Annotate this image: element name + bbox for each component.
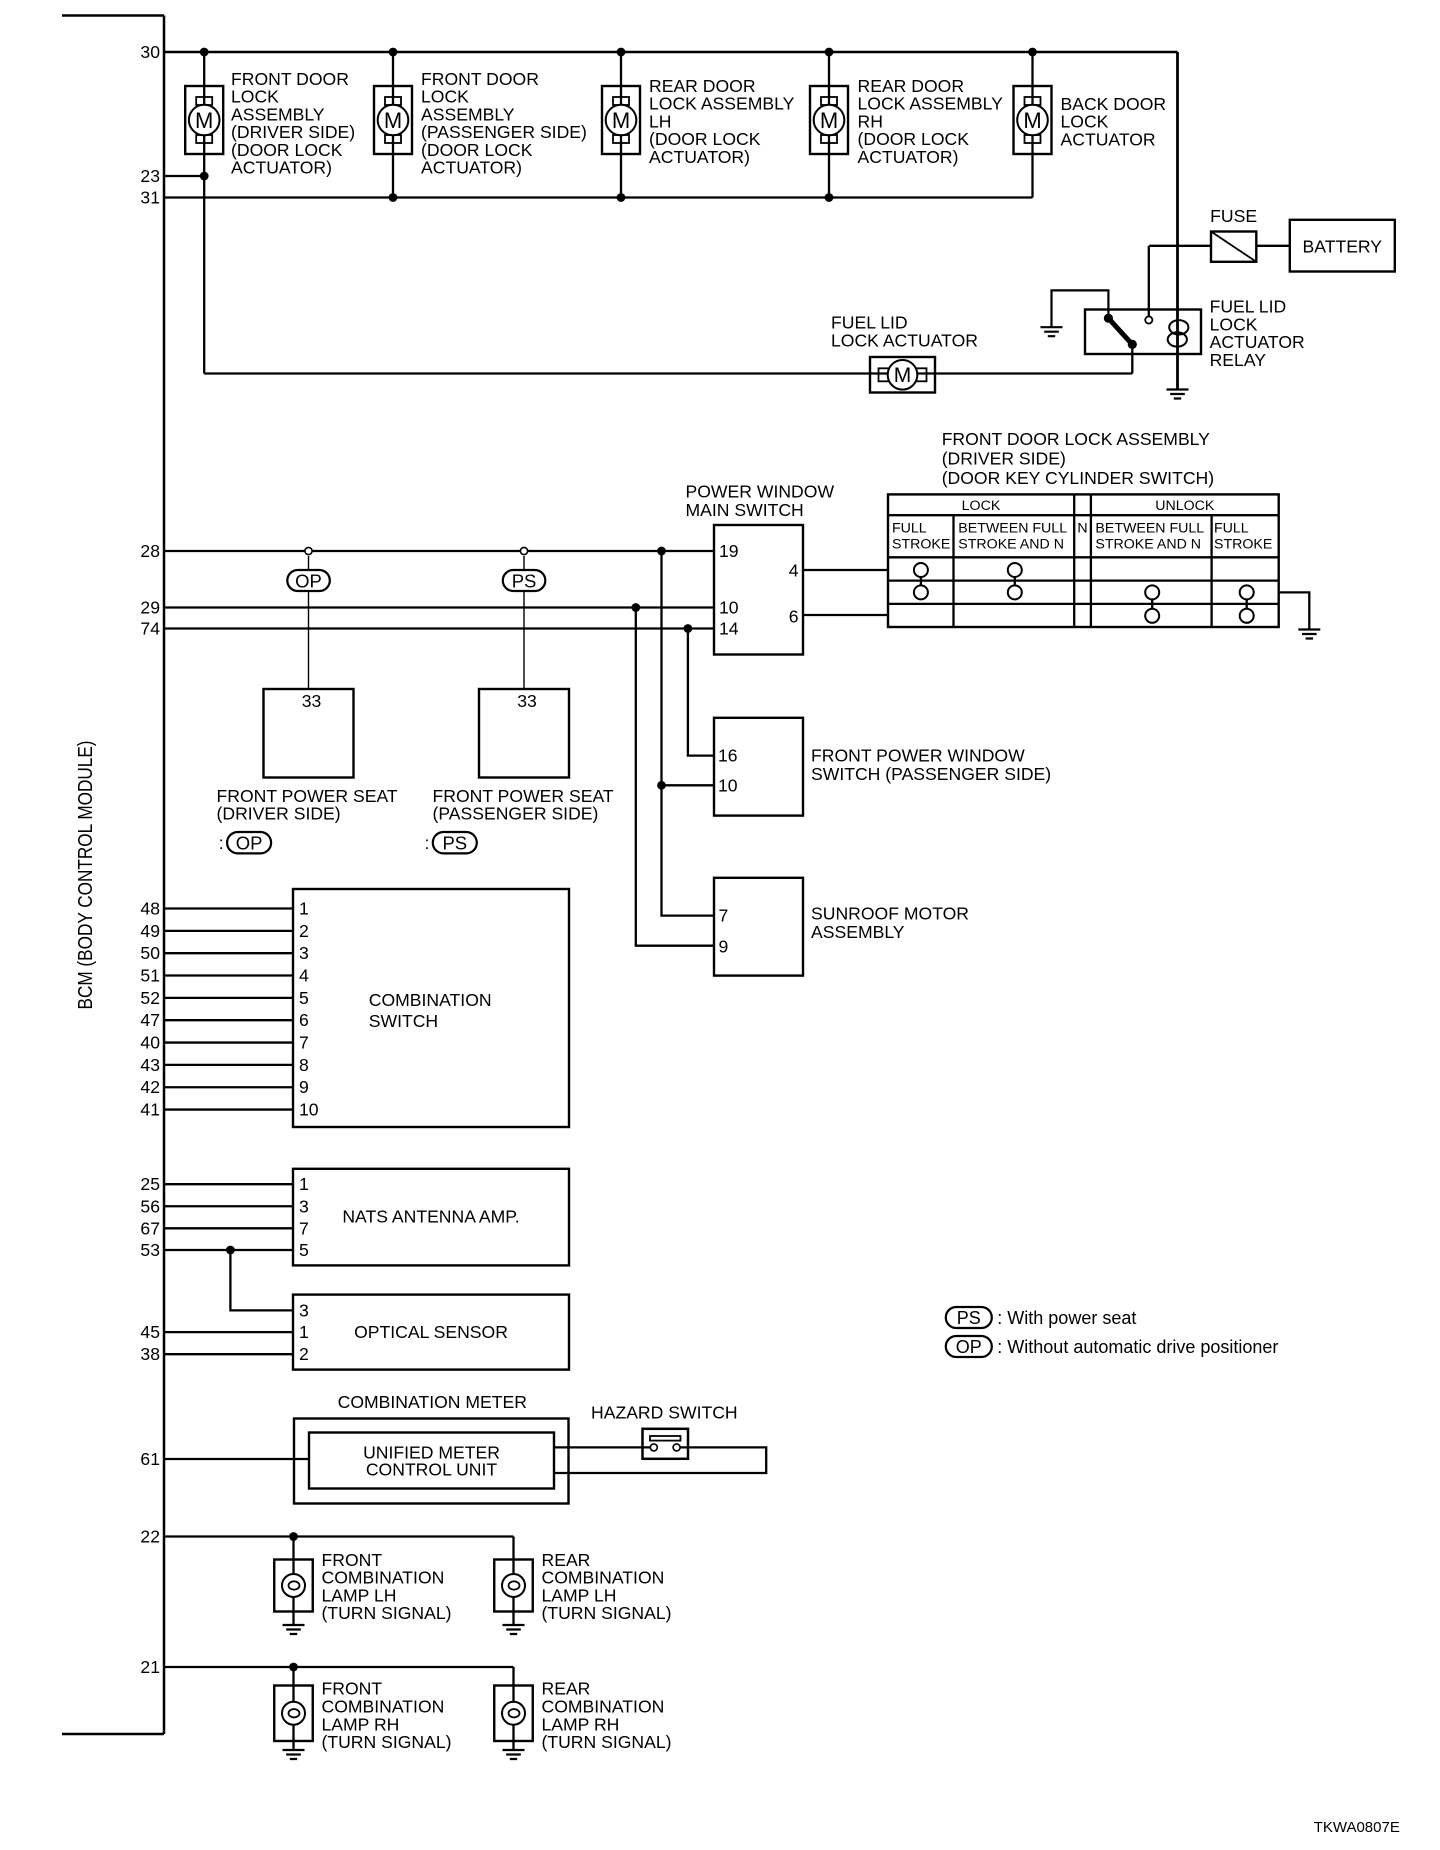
svg-text:COMBINATION: COMBINATION	[369, 990, 492, 1010]
svg-text:M: M	[195, 108, 213, 133]
svg-text:FUEL LID: FUEL LID	[831, 313, 908, 333]
svg-text:28: 28	[140, 541, 160, 561]
svg-text:16: 16	[718, 746, 738, 766]
svg-text:STROKE: STROKE	[1214, 537, 1272, 553]
svg-text:(TURN SIGNAL): (TURN SIGNAL)	[322, 1603, 452, 1623]
svg-text:3: 3	[299, 1300, 309, 1320]
svg-text:22: 22	[140, 1527, 160, 1547]
svg-text:67: 67	[140, 1218, 160, 1238]
svg-text:14: 14	[719, 619, 739, 639]
svg-text:PS: PS	[957, 1308, 981, 1328]
svg-text:FULL: FULL	[1214, 521, 1249, 537]
svg-text:38: 38	[140, 1344, 160, 1364]
svg-text:PS: PS	[442, 833, 467, 854]
svg-text:40: 40	[140, 1033, 160, 1053]
svg-text:6: 6	[789, 607, 799, 627]
svg-text:ACTUATOR): ACTUATOR)	[649, 147, 750, 167]
svg-text:FULL: FULL	[892, 521, 927, 537]
svg-text:3: 3	[299, 1196, 309, 1216]
svg-text::: :	[425, 833, 430, 853]
svg-text:7: 7	[299, 1033, 309, 1053]
svg-text:56: 56	[140, 1196, 160, 1216]
svg-text:9: 9	[299, 1077, 309, 1097]
svg-text:(PASSENGER SIDE): (PASSENGER SIDE)	[433, 804, 599, 824]
svg-text:1: 1	[299, 899, 309, 919]
svg-text:10: 10	[299, 1100, 319, 1120]
svg-text:1: 1	[299, 1174, 309, 1194]
svg-text:LOCK ACTUATOR: LOCK ACTUATOR	[831, 331, 978, 351]
svg-text:5: 5	[299, 1240, 309, 1260]
svg-text:8: 8	[299, 1055, 309, 1075]
svg-text:ACTUATOR): ACTUATOR)	[231, 158, 332, 178]
svg-text:: Without automatic drive posi: : Without automatic drive positioner	[997, 1337, 1278, 1357]
svg-text:50: 50	[140, 943, 160, 963]
svg-text:STROKE AND N: STROKE AND N	[958, 537, 1064, 553]
svg-text:52: 52	[140, 988, 160, 1008]
svg-text:STROKE: STROKE	[892, 537, 950, 553]
svg-text:SWITCH: SWITCH	[369, 1011, 438, 1031]
svg-text:FUSE: FUSE	[1210, 206, 1257, 226]
svg-text:CONTROL UNIT: CONTROL UNIT	[366, 1460, 498, 1480]
svg-text:7: 7	[719, 906, 729, 926]
svg-text:ACTUATOR: ACTUATOR	[1061, 129, 1156, 149]
svg-text:COMBINATION METER: COMBINATION METER	[338, 1392, 527, 1412]
svg-text:25: 25	[140, 1174, 160, 1194]
svg-text:OP: OP	[236, 833, 263, 854]
svg-text:M: M	[820, 108, 838, 133]
svg-text:NATS ANTENNA AMP.: NATS ANTENNA AMP.	[342, 1207, 519, 1227]
svg-text:ACTUATOR): ACTUATOR)	[421, 158, 522, 178]
svg-text:29: 29	[140, 598, 160, 618]
svg-text:4: 4	[789, 561, 799, 581]
svg-text:FRONT DOOR LOCK ASSEMBLY: FRONT DOOR LOCK ASSEMBLY	[942, 429, 1210, 449]
svg-text:6: 6	[299, 1010, 309, 1030]
svg-text:30: 30	[140, 42, 160, 62]
svg-text:(TURN SIGNAL): (TURN SIGNAL)	[542, 1732, 672, 1752]
svg-text:2: 2	[299, 921, 309, 941]
svg-text:45: 45	[140, 1322, 160, 1342]
svg-text:49: 49	[140, 921, 160, 941]
svg-text:(DRIVER SIDE): (DRIVER SIDE)	[942, 449, 1066, 469]
svg-text:31: 31	[140, 188, 160, 208]
svg-text:TKWA0807E: TKWA0807E	[1314, 1819, 1400, 1836]
svg-text:BETWEEN FULL: BETWEEN FULL	[958, 521, 1067, 537]
svg-text:(DOOR KEY CYLINDER SWITCH): (DOOR KEY CYLINDER SWITCH)	[942, 468, 1214, 488]
svg-text::: :	[219, 833, 224, 853]
svg-text:N: N	[1077, 521, 1087, 537]
svg-text:M: M	[894, 364, 912, 387]
svg-text:53: 53	[140, 1240, 160, 1260]
svg-text:BETWEEN FULL: BETWEEN FULL	[1095, 521, 1204, 537]
svg-text:ACTUATOR): ACTUATOR)	[858, 147, 959, 167]
svg-text:OPTICAL SENSOR: OPTICAL SENSOR	[354, 1322, 508, 1342]
svg-text:3: 3	[299, 943, 309, 963]
svg-text:10: 10	[718, 775, 738, 795]
svg-text:33: 33	[517, 691, 537, 711]
svg-text:9: 9	[719, 937, 729, 957]
svg-text:23: 23	[140, 166, 160, 186]
svg-text:33: 33	[302, 691, 322, 711]
svg-text:OP: OP	[956, 1337, 982, 1357]
svg-text:ASSEMBLY: ASSEMBLY	[811, 922, 905, 942]
svg-text:5: 5	[299, 988, 309, 1008]
svg-text:4: 4	[299, 966, 309, 986]
svg-text:61: 61	[140, 1449, 160, 1469]
svg-text:74: 74	[140, 619, 160, 639]
svg-text:M: M	[1023, 108, 1041, 133]
svg-text:10: 10	[719, 598, 739, 618]
svg-text:RELAY: RELAY	[1210, 350, 1267, 370]
svg-text:OP: OP	[295, 571, 322, 592]
svg-text:42: 42	[140, 1077, 160, 1097]
svg-text:19: 19	[719, 541, 739, 561]
svg-text:21: 21	[140, 1657, 160, 1677]
svg-text:MAIN SWITCH: MAIN SWITCH	[686, 500, 804, 520]
svg-text:48: 48	[140, 899, 160, 919]
svg-text:M: M	[612, 108, 630, 133]
svg-text:BCM (BODY CONTROL MODULE): BCM (BODY CONTROL MODULE)	[75, 741, 97, 1010]
svg-text:STROKE AND N: STROKE AND N	[1095, 537, 1201, 553]
svg-text:: With power seat: : With power seat	[997, 1308, 1136, 1328]
svg-text:7: 7	[299, 1218, 309, 1238]
svg-text:(TURN SIGNAL): (TURN SIGNAL)	[542, 1603, 672, 1623]
svg-text:UNLOCK: UNLOCK	[1155, 498, 1215, 514]
svg-text:SUNROOF MOTOR: SUNROOF MOTOR	[811, 903, 969, 923]
svg-text:FRONT POWER WINDOW: FRONT POWER WINDOW	[811, 746, 1025, 766]
svg-text:LOCK: LOCK	[962, 498, 1001, 514]
svg-text:51: 51	[140, 966, 160, 986]
svg-text:(TURN SIGNAL): (TURN SIGNAL)	[322, 1732, 452, 1752]
svg-text:1: 1	[299, 1322, 309, 1342]
svg-text:POWER WINDOW: POWER WINDOW	[686, 482, 835, 502]
svg-text:41: 41	[140, 1100, 160, 1120]
svg-text:PS: PS	[512, 571, 537, 592]
svg-text:M: M	[384, 108, 402, 133]
svg-text:BATTERY: BATTERY	[1303, 236, 1383, 256]
svg-text:SWITCH (PASSENGER SIDE): SWITCH (PASSENGER SIDE)	[811, 764, 1051, 784]
svg-text:2: 2	[299, 1344, 309, 1364]
svg-text:43: 43	[140, 1055, 160, 1075]
svg-text:(DRIVER SIDE): (DRIVER SIDE)	[217, 804, 341, 824]
svg-text:47: 47	[140, 1010, 160, 1030]
svg-text:HAZARD SWITCH: HAZARD SWITCH	[591, 1403, 738, 1423]
